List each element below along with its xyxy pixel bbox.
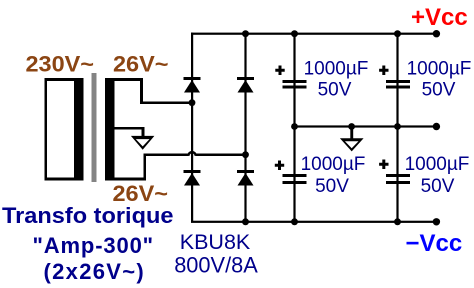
wire secondary top tap <box>140 78 193 104</box>
svg-text:1000µF: 1000µF <box>304 59 369 80</box>
transformer T1 primary winding <box>45 78 84 181</box>
svg-text:230V~: 230V~ <box>26 52 95 77</box>
svg-text:1000µF: 1000µF <box>405 154 470 175</box>
capacitor C4 plates <box>386 174 410 184</box>
ground middle rail <box>340 127 364 152</box>
wire secondary center tap <box>115 127 145 137</box>
node mid rail C2 <box>394 123 401 130</box>
node bottom rail D4 <box>242 218 249 225</box>
diode D4 bottom-right <box>237 170 254 186</box>
capacitor C1 plates <box>283 80 307 89</box>
node mid rail C1 <box>291 123 298 130</box>
node bottom rail C4 <box>394 218 401 225</box>
wire bottom rail -Vcc <box>191 221 437 223</box>
node AC1 junction <box>189 99 196 106</box>
diode D3 bottom-left <box>184 170 201 186</box>
capacitor C1 plus sign <box>275 66 284 76</box>
wire top rail +Vcc <box>191 33 437 35</box>
transformer T1 core <box>92 73 97 182</box>
svg-text:1000µF: 1000µF <box>301 154 366 175</box>
capacitor C2 plus sign <box>379 66 388 76</box>
svg-text:KBU8K: KBU8K <box>180 230 251 254</box>
diode D2 top-right <box>237 77 254 93</box>
capacitor C3 plus sign <box>275 161 284 171</box>
capacitor C4 plus sign <box>379 160 388 170</box>
wire middle rail 0V <box>294 125 437 127</box>
node top rail C2 <box>394 30 401 37</box>
svg-text:+Vcc: +Vcc <box>411 4 468 31</box>
wire left bridge column <box>191 33 193 222</box>
ground transformer center tap <box>131 136 155 150</box>
node top rail D2 <box>242 30 249 37</box>
diode D1 top-left <box>184 77 201 93</box>
svg-text:1000µF: 1000µF <box>407 59 472 80</box>
node -Vcc terminal <box>433 218 440 225</box>
svg-text:−Vcc: −Vcc <box>406 230 463 257</box>
svg-text:50V: 50V <box>421 176 455 197</box>
transformer T1 secondary winding <box>105 78 146 181</box>
svg-text:"Amp-300": "Amp-300" <box>33 233 154 258</box>
wire capacitor column 1 <box>293 33 295 222</box>
node top rail C1 <box>291 30 298 37</box>
node AC2 junction <box>242 151 249 158</box>
capacitor C3 plates <box>283 174 307 184</box>
node bottom rail C3 <box>291 218 298 225</box>
svg-text:50V: 50V <box>422 79 456 100</box>
capacitor C2 plates <box>386 80 410 89</box>
node +Vcc terminal <box>433 30 440 37</box>
svg-text:26V~: 26V~ <box>113 52 169 77</box>
svg-text:(2x26V~): (2x26V~) <box>44 259 146 284</box>
svg-text:50V: 50V <box>318 79 352 100</box>
wire right bridge column <box>244 33 246 222</box>
wire secondary bottom tap <box>144 152 247 180</box>
node mid rail ground <box>348 123 355 130</box>
wire capacitor column 2 <box>396 33 398 222</box>
svg-text:Transfo torique: Transfo torique <box>2 203 174 228</box>
svg-text:800V/8A: 800V/8A <box>174 252 258 277</box>
svg-text:50V: 50V <box>315 176 349 197</box>
node 0V terminal <box>433 123 440 130</box>
